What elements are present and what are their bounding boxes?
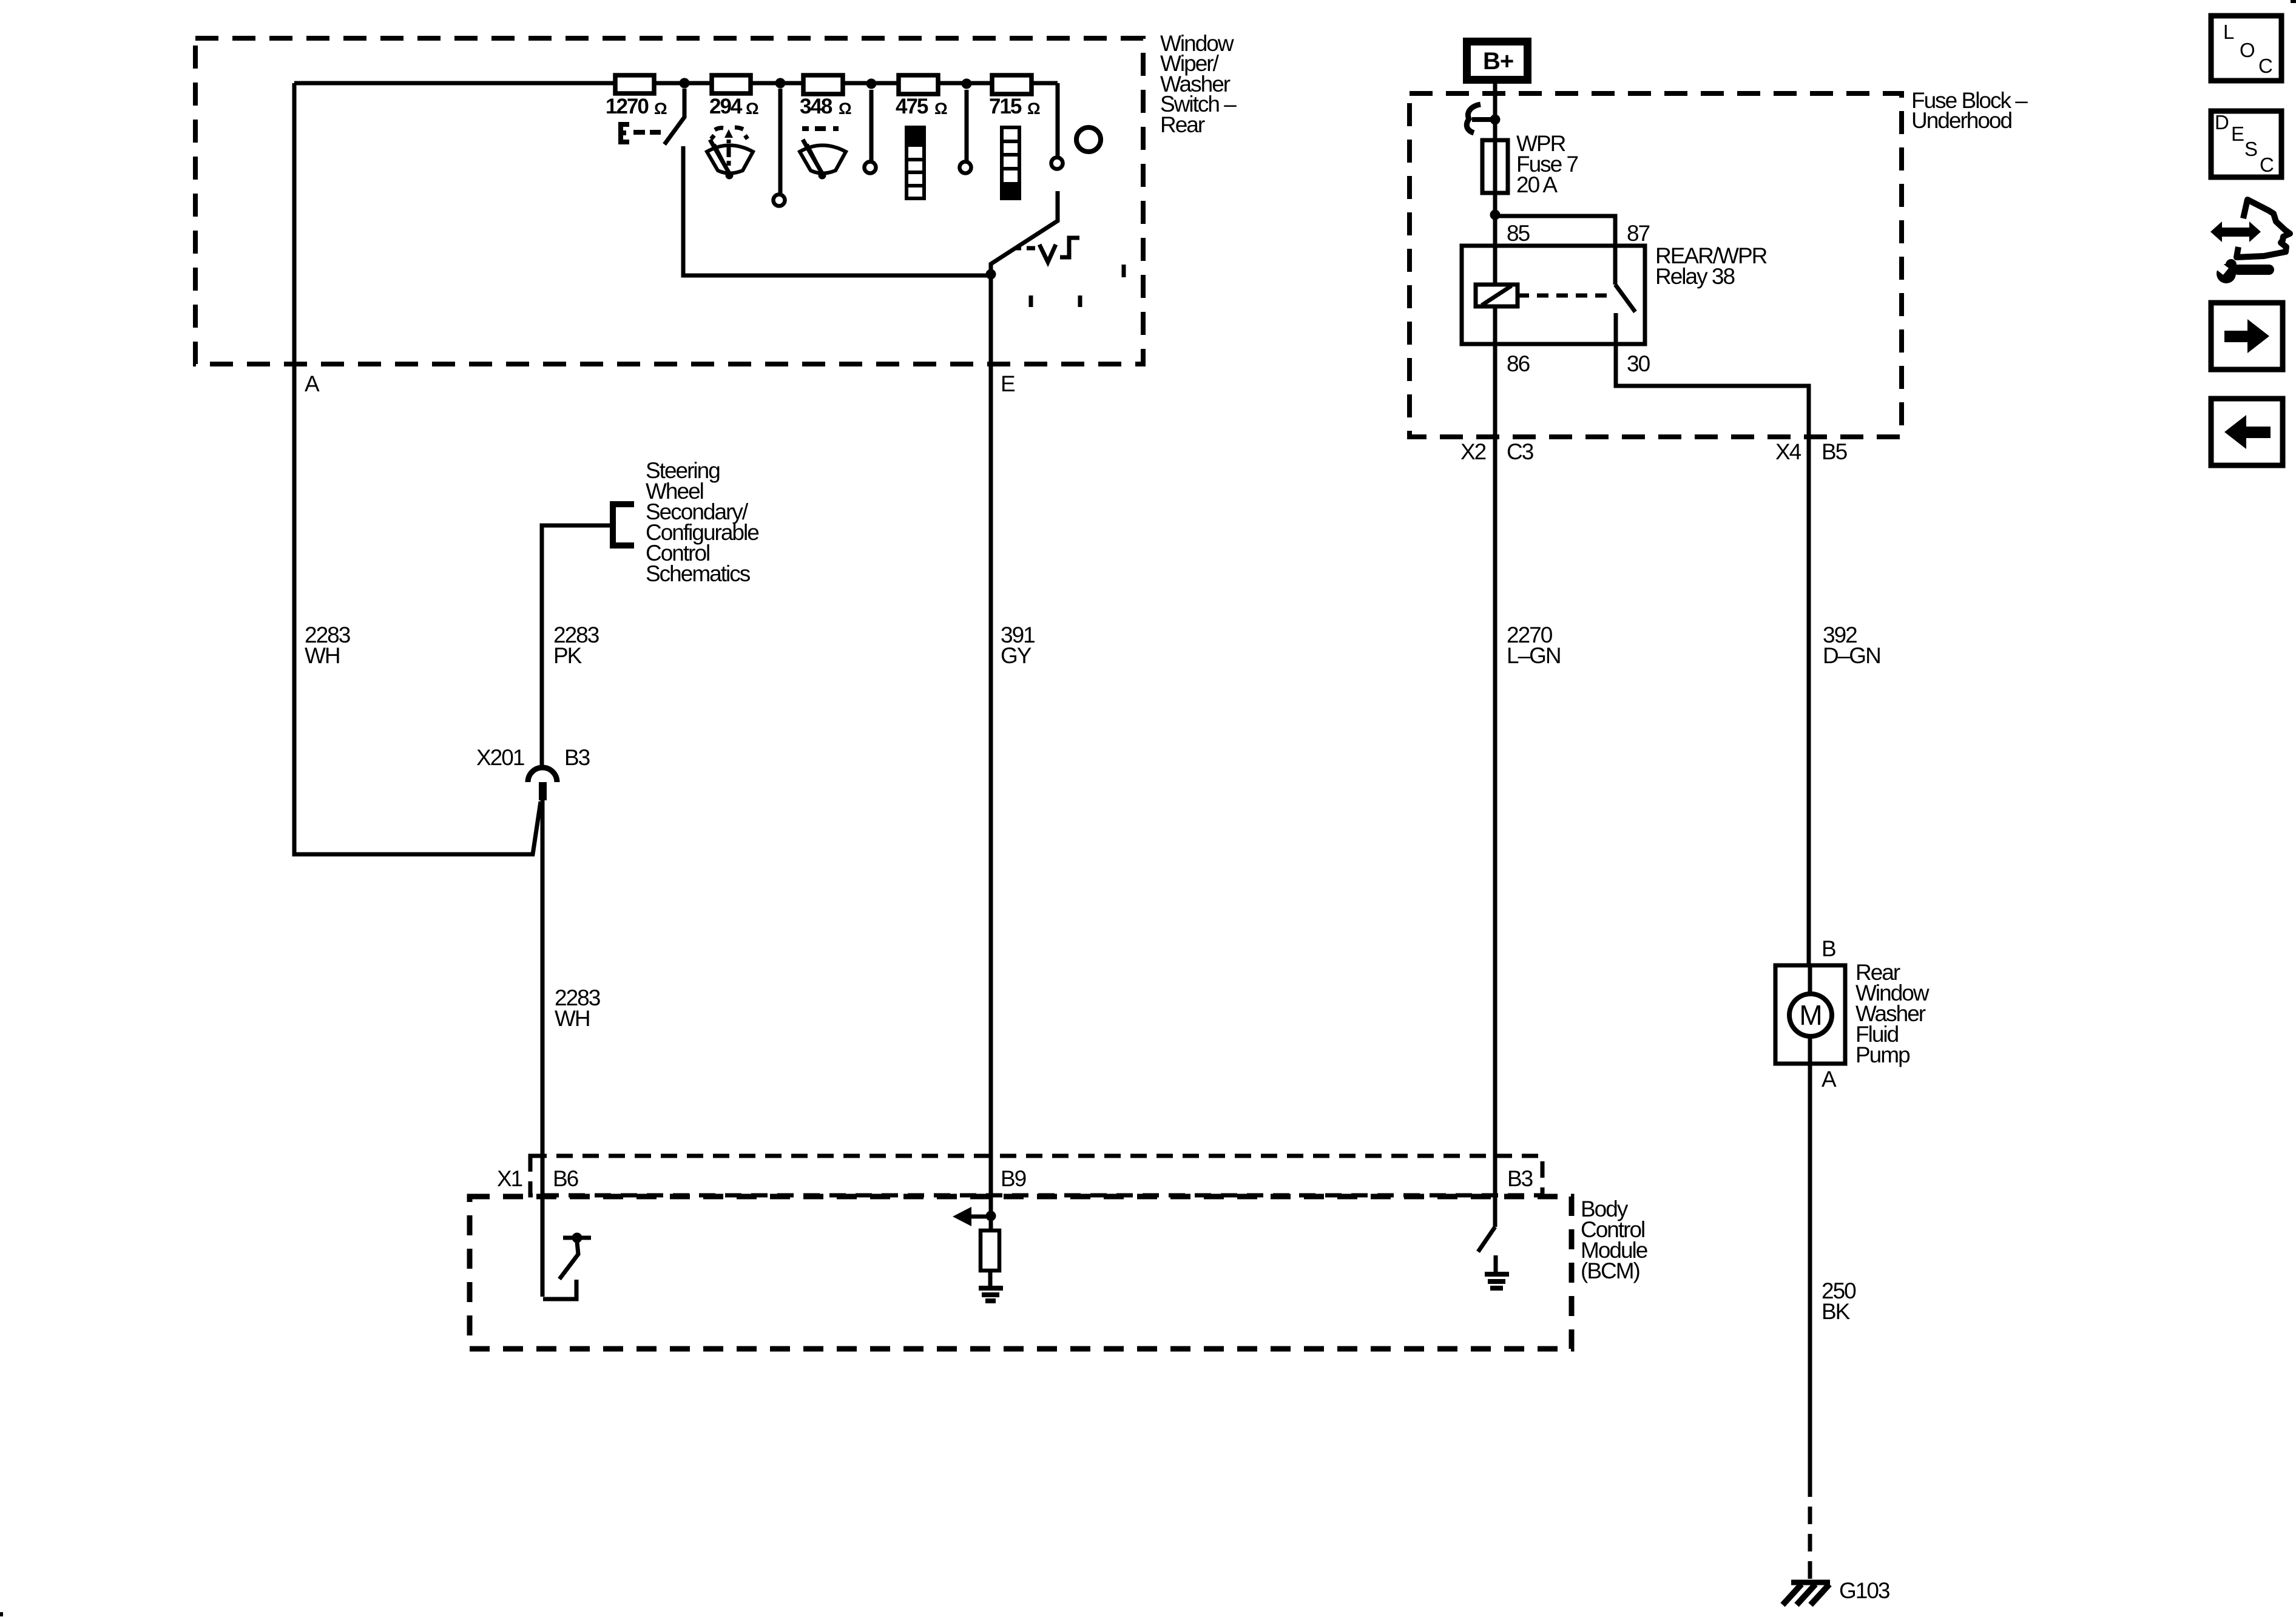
svg-text:(BCM): (BCM)	[1581, 1258, 1640, 1283]
BCM B6 switch blade	[559, 1242, 578, 1279]
wrench icon	[2215, 259, 2274, 283]
park bracket symbol E	[621, 124, 629, 142]
relay coil diagonal	[1482, 286, 1511, 305]
BCM box (dashed)	[470, 1197, 1572, 1349]
svg-text:B3: B3	[1507, 1166, 1533, 1191]
svg-text:X2: X2	[1460, 439, 1486, 464]
previous page arrow box	[2211, 399, 2283, 465]
resistor R2 294 ohm	[712, 75, 751, 93]
connector X201 B3 male pin	[539, 782, 547, 800]
wash momentary symbol v-step	[1039, 245, 1056, 262]
svg-text:C: C	[2258, 55, 2272, 77]
park switch blade at node1	[664, 89, 684, 144]
car outline icon	[2237, 200, 2290, 257]
BCM connector strip (fine dashed)	[530, 1156, 1542, 1195]
wire through pump box	[1808, 965, 1812, 1064]
relay coil wire 85-86	[1493, 246, 1497, 344]
svg-text:Ω: Ω	[1027, 100, 1041, 118]
fuse block box (dashed)	[1410, 93, 1902, 437]
wire left (2283 WH from A)	[294, 83, 541, 854]
wire stub node4	[965, 90, 969, 161]
svg-text:475: 475	[896, 95, 928, 118]
svg-text:D–GN: D–GN	[1823, 643, 1880, 668]
pump box	[1775, 965, 1845, 1064]
svg-text:B+: B+	[1483, 48, 1513, 75]
svg-text:X4: X4	[1775, 439, 1801, 464]
svg-text:294: 294	[709, 95, 743, 118]
BCM internal resistor	[981, 1230, 999, 1271]
open terminal right column	[1052, 158, 1063, 169]
BCM B3 ground stub	[1494, 1255, 1498, 1272]
BCM B9 ground symbol	[979, 1288, 1003, 1301]
svg-text:85: 85	[1507, 221, 1530, 246]
wire from junction to relay 85	[1493, 215, 1497, 246]
breaker junction dot	[1490, 115, 1501, 125]
connector X201 B3 female arc	[528, 768, 557, 782]
svg-text:Ω: Ω	[746, 100, 759, 118]
svg-text:X201: X201	[476, 745, 524, 770]
BCM resistor to ground wire	[988, 1271, 993, 1286]
wire 250 BK from pump down	[1808, 1064, 1812, 1497]
BCM B9 arrow line	[971, 1215, 991, 1219]
svg-text:30: 30	[1627, 351, 1650, 376]
svg-text:L–GN: L–GN	[1507, 643, 1561, 668]
open terminal below node4	[960, 162, 971, 174]
svg-text:Relay 38: Relay 38	[1655, 264, 1734, 289]
relay contact stub 30	[1614, 313, 1618, 344]
svg-text:1270: 1270	[606, 95, 649, 118]
BCM B9 junction dot	[986, 1211, 996, 1221]
svg-text:E: E	[2231, 123, 2244, 145]
svg-text:Rear: Rear	[1160, 112, 1205, 137]
wire from 30 down right to X4 B5	[1616, 344, 1809, 436]
wire 392 D-GN down to pump	[1807, 436, 1811, 965]
wire 2283 PK from bracket to X201	[542, 525, 613, 767]
dashed wire to ground	[1808, 1507, 1812, 1580]
BCM B3 ground symbol	[1485, 1274, 1509, 1288]
open terminal below node3	[865, 162, 876, 174]
resistor R3 348 ohm	[803, 75, 843, 94]
svg-text:B5: B5	[1822, 439, 1848, 464]
fuse WPR Fuse 7	[1482, 140, 1508, 193]
wash switch blade	[991, 191, 1058, 272]
relay coil	[1476, 285, 1518, 306]
svg-text:Ω: Ω	[934, 100, 948, 118]
wash linkage dashes	[1015, 246, 1035, 251]
svg-text:O: O	[2240, 39, 2255, 61]
open terminal below node2	[774, 195, 785, 206]
relay switch blade 87-30	[1615, 285, 1635, 312]
svg-text:348: 348	[800, 95, 832, 118]
resistor R4 475 ohm	[899, 75, 938, 94]
relay linkage dashed line	[1518, 294, 1609, 298]
wire 391 GY from wash junction to BCM B9	[989, 274, 993, 1216]
B+ battery box	[1467, 42, 1528, 80]
node after R2	[775, 78, 786, 89]
svg-text:20 A: 20 A	[1516, 172, 1558, 197]
wire from park switch down and right to wash junction	[683, 146, 991, 275]
svg-text:D: D	[2215, 111, 2229, 133]
motor M circle	[1789, 994, 1832, 1036]
svg-text:C: C	[2260, 154, 2274, 176]
BCM B6 switch pivot dot	[572, 1233, 582, 1243]
svg-text:X1: X1	[497, 1166, 522, 1191]
off position circle	[1076, 127, 1101, 152]
svg-text:A: A	[1822, 1067, 1837, 1092]
svg-text:Pump: Pump	[1855, 1042, 1910, 1067]
wire top rail	[294, 83, 1058, 157]
park linkage dashes	[633, 130, 661, 135]
node after R3	[866, 79, 877, 89]
BCM B6 internal switch bar	[563, 1236, 591, 1240]
DESC icon box	[2211, 111, 2281, 177]
svg-text:B6: B6	[553, 1166, 578, 1191]
BCM B9 wire to resistor	[989, 1216, 993, 1230]
resistor R5 715 ohm	[992, 75, 1032, 94]
svg-text:Schematics: Schematics	[646, 561, 751, 586]
wire stub node2	[778, 89, 783, 194]
svg-text:Ω: Ω	[654, 100, 667, 118]
wire from B+ down	[1493, 84, 1497, 140]
svg-text:G103: G103	[1839, 1578, 1889, 1603]
BCM B3 wire and switch blade	[1478, 1227, 1495, 1252]
node after R1	[680, 78, 690, 89]
bar gauge (475 column)	[907, 127, 924, 198]
node after R4	[962, 79, 972, 89]
wiper icon intermittent (294 column)	[707, 127, 753, 180]
Window Wiper/Washer Switch box (dashed)	[195, 38, 1143, 364]
svg-text:B3: B3	[564, 745, 590, 770]
detent tick marks	[1031, 265, 1124, 307]
svg-text:Underhood: Underhood	[1911, 108, 2012, 133]
svg-text:WH: WH	[555, 1006, 590, 1031]
svg-text:GY: GY	[1001, 643, 1032, 668]
page corner speck bottom left	[0, 1612, 3, 1616]
svg-text:BK: BK	[1822, 1299, 1851, 1324]
wire through fuse	[1493, 140, 1497, 215]
svg-text:Ω: Ω	[839, 100, 852, 118]
page corner speck top right	[2291, 0, 2296, 3]
bar gauge (715 column)	[1002, 127, 1019, 198]
relay box	[1462, 246, 1645, 344]
svg-text:86: 86	[1507, 351, 1530, 376]
steering wheel bracket	[613, 504, 634, 545]
wire from junction to relay 87	[1495, 216, 1615, 285]
breaker tick to wire	[1472, 117, 1495, 122]
svg-text:C3: C3	[1507, 439, 1533, 464]
svg-text:A: A	[305, 371, 320, 396]
wire 2283 WH from X201 to BCM B6	[541, 800, 545, 1297]
ground G103 chassis symbol	[1791, 1580, 1830, 1585]
svg-text:87: 87	[1627, 221, 1650, 246]
svg-text:M: M	[1799, 999, 1822, 1031]
junction dot wash	[986, 269, 996, 280]
circuit breaker hook symbol	[1467, 104, 1481, 133]
svg-text:PK: PK	[553, 643, 582, 668]
next page arrow box	[2211, 303, 2283, 370]
wire from 86 down through X2 C3	[1493, 344, 1497, 1227]
BCM B6 internal switch hook	[543, 1280, 576, 1299]
svg-text:B9: B9	[1001, 1166, 1026, 1191]
svg-text:WH: WH	[305, 643, 340, 668]
svg-text:715: 715	[989, 95, 1022, 118]
svg-text:B: B	[1822, 936, 1835, 961]
junction dot below fuse	[1490, 210, 1501, 220]
svg-text:L: L	[2223, 21, 2234, 43]
LOC icon box	[2211, 16, 2281, 81]
double arrow icon	[2210, 221, 2261, 242]
BCM B9 arrow head	[953, 1207, 971, 1226]
svg-text:S: S	[2244, 138, 2257, 160]
wiper icon low speed (348 column)	[800, 129, 846, 180]
wire stub node3	[869, 90, 874, 161]
resistor R1 1270 ohm	[615, 75, 654, 93]
svg-text:E: E	[1001, 371, 1015, 396]
